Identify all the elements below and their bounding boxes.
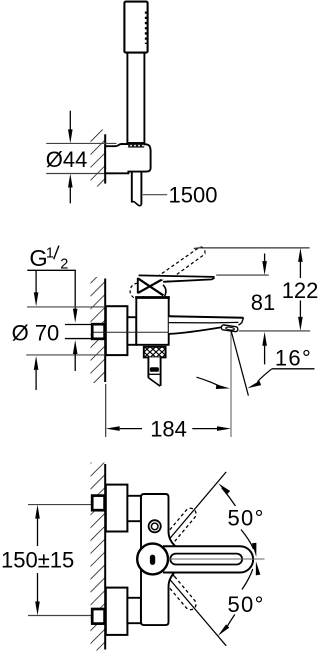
spray face dotted line <box>145 12 148 45</box>
extension line spout bottom <box>239 330 311 332</box>
wall hatch (bottom view) <box>91 463 106 651</box>
dim Ø44 extension lines <box>46 143 116 173</box>
fitting leader lines <box>65 325 92 339</box>
shower handle <box>127 52 144 144</box>
wall union fitting (middle) <box>92 324 107 339</box>
shower hose <box>132 172 142 206</box>
dim 150±15 extension lines <box>28 505 92 616</box>
neck top (bottom view) <box>127 496 140 521</box>
escutcheon top (bottom view) <box>106 485 128 532</box>
TOP VIEW : hand shower set <box>46 2 218 208</box>
knurled ring <box>144 347 166 358</box>
vertical reference line (aerator) <box>230 332 232 438</box>
diverter knob <box>149 520 161 532</box>
leader line 1500 <box>143 194 167 196</box>
16 deg left leader arrow <box>197 377 231 390</box>
16 deg slant line <box>231 332 248 396</box>
lever (bottom view) <box>163 546 253 572</box>
dim 184 <box>106 384 231 441</box>
extension line lever top <box>216 274 269 276</box>
lever base cone <box>138 277 168 296</box>
extension line lever raised top <box>194 247 310 250</box>
50 deg boundary line lower <box>161 569 227 646</box>
wall union fitting top (bottom view) <box>92 496 104 511</box>
aerator <box>221 325 238 332</box>
shower head <box>124 2 147 53</box>
dim 81 <box>251 254 275 365</box>
dashed lever rotated down <box>162 572 198 612</box>
wall union fitting bottom (bottom view) <box>92 609 104 624</box>
svg-text:81: 81 <box>251 290 275 315</box>
dim Ø44 arrows <box>68 111 73 204</box>
escutcheon bottom (bottom view) <box>106 588 128 635</box>
dim 150±15 arrows <box>35 505 40 616</box>
svg-text:1: 1 <box>46 245 54 261</box>
dim Ø70 lower arrows <box>34 340 78 390</box>
BOTTOM VIEW : bath mixer front (rotated) <box>1 463 265 651</box>
svg-text:1500: 1500 <box>169 183 218 208</box>
svg-text:Ø44: Ø44 <box>46 147 88 172</box>
escutcheon (middle) <box>106 306 128 355</box>
spout <box>169 316 244 334</box>
dashed lever base circle <box>130 283 146 299</box>
dashed lever rotated up <box>162 506 198 546</box>
svg-text:16°: 16° <box>275 345 312 370</box>
svg-text:Ø 70: Ø 70 <box>12 321 60 346</box>
centerline <box>169 558 265 560</box>
mixer body (bottom view) <box>141 494 176 625</box>
50 deg lower leader arrows <box>216 561 260 638</box>
dim Ø70 extension lines <box>26 307 105 355</box>
50 deg boundary line upper <box>161 472 227 550</box>
G1/2 callout arrow left <box>34 270 39 306</box>
svg-text:122: 122 <box>282 278 319 303</box>
svg-text:150±15: 150±15 <box>1 547 74 572</box>
MIDDLE VIEW : bath mixer side <box>12 245 319 441</box>
solid lever (middle) <box>139 275 214 282</box>
union axis centerline <box>94 331 169 333</box>
neck bottom (bottom view) <box>127 598 140 623</box>
bracket knurl band <box>128 144 144 148</box>
svg-text:50°: 50° <box>228 592 265 617</box>
dim 122 <box>282 248 319 331</box>
label G 1/2 <box>27 245 76 272</box>
G1/2 callout arrow right <box>73 270 78 323</box>
svg-text:184: 184 <box>150 416 187 441</box>
svg-text:50°: 50° <box>228 506 265 531</box>
wall hatch (top view) <box>91 130 106 187</box>
shower bracket <box>105 144 150 173</box>
cartridge block (middle body) <box>135 297 170 344</box>
50 deg upper leader arrows <box>217 482 259 558</box>
diverter pull rod <box>148 357 160 386</box>
pivot dome <box>137 544 168 575</box>
neck (middle) <box>127 317 136 345</box>
wall hatch (middle view) <box>91 277 106 383</box>
dashed raised lever <box>148 247 206 292</box>
16 deg right leader arrow <box>246 369 314 391</box>
